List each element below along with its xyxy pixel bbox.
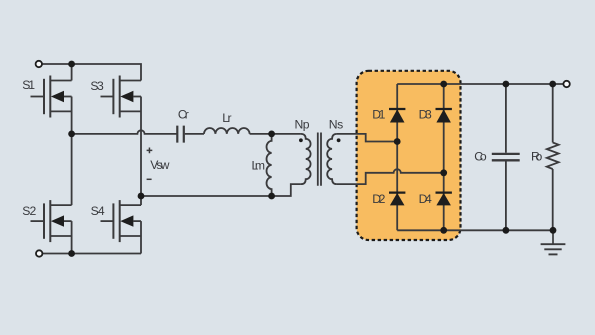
wire: node B jog up to Np bottom [272,184,301,196]
wire: Lr to node A and on to Np [250,133,301,135]
node: Co top [503,81,510,88]
svg-text:Ns: Ns [329,118,344,132]
transformer primary winding Np [301,134,311,184]
wire: S3 source vertical to phase node B [140,97,142,197]
wire: S4 drain vertical [140,196,142,205]
node: Ro bottom [550,227,557,234]
wire: output bottom rail [397,229,553,231]
node: phase A [68,131,75,138]
node: Ro top [549,81,556,88]
MOSFET S3 [101,76,142,118]
node: D1/D2 junction [394,138,401,145]
svg-text:Lr: Lr [222,111,231,125]
node: Lm bottom [268,193,275,200]
wire: S4 source vertical [140,221,142,253]
wire: phase A rail with hop over S3/S4 leg [72,130,177,134]
svg-text:D3: D3 [419,108,432,122]
terminal: output top [563,81,569,87]
ground [541,230,566,254]
wire: rectifier right leg (D3/D4) [443,84,445,230]
capacitor Co plates [492,154,520,160]
wire: phase B rail [141,195,272,197]
wire: S1 source / S2 drain vertical (phase node A) [71,97,73,206]
svg-text:Np: Np [295,118,310,132]
node: rectifier top right [440,81,447,88]
Vsw plus sign [147,148,153,154]
node: Co bottom [503,227,510,234]
capacitor Cr plates [177,126,184,143]
svg-text:S2: S2 [22,204,36,218]
wire: S1 drain vertical [71,64,73,81]
svg-text:Co: Co [474,150,487,164]
Vsw minus sign [147,178,152,180]
wire: Cr to Lr [185,133,204,135]
svg-text:S4: S4 [91,204,105,218]
node: S1 drain on top rail [68,61,75,68]
wire: Ro vertical [552,84,554,230]
svg-text:D4: D4 [419,192,432,206]
transformer secondary winding Ns [327,134,337,184]
MOSFET S2 [31,200,72,242]
node: rectifier bottom right [440,227,447,234]
svg-text:D1: D1 [372,108,385,122]
svg-text:Ro: Ro [531,149,543,163]
wire: bottom rail [42,253,141,255]
polarity dot Np [299,138,303,142]
inductor Lr [204,128,250,134]
svg-text:D2: D2 [372,192,385,206]
MOSFET S4 [101,200,142,242]
wire: output top rail [397,83,563,85]
diode D3 [436,109,452,123]
MOSFET S1 [31,76,72,118]
wire: Ns top to D1/D2 node [337,134,397,142]
node: phase B [138,193,145,200]
svg-text:Cr: Cr [178,108,189,122]
svg-text:Vsw: Vsw [150,158,169,172]
wire: S2 source vertical to bottom rail [71,221,73,253]
node: Lm top [268,131,275,138]
svg-text:S3: S3 [90,79,104,93]
resistor Ro zigzag [547,143,559,170]
svg-text:Lm: Lm [252,159,266,173]
node: D3/D4 junction [440,169,447,176]
wire: Co vertical [505,84,507,230]
transformer core [318,133,321,186]
terminal: input bottom [36,250,42,256]
diode D2 [389,193,405,206]
wire: rectifier left leg (D1/D2) [396,84,398,230]
svg-text:S1: S1 [22,78,35,92]
node: S2 source on bottom rail [68,250,75,257]
polarity dot Ns [337,138,341,142]
wire: top rail from input terminal to S3 drain [42,64,141,81]
diode D1 [389,109,405,123]
rectifier highlight box (dashed orange) [357,71,461,240]
inductor Lm [267,134,272,196]
terminal: input top [36,61,42,67]
diode D4 [436,193,452,206]
wire: Ns bottom to D3/D4 node with hop over left leg [337,169,444,184]
